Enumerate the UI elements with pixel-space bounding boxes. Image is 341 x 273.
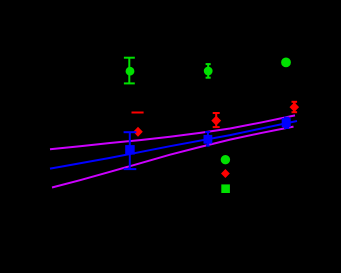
blue best-fit line [50,121,297,169]
green point G1 error bar [124,58,135,84]
blue point Bmid square [204,135,213,144]
red point R3 diamond [290,102,300,112]
red point R1 diamond [133,127,143,137]
blue point Bmid error bar [205,132,210,146]
red point R2 diamond [211,116,221,126]
blue point B1 error bar [124,132,137,169]
green point G3 circle [281,58,291,68]
blue point B2 square [282,118,291,127]
upper magenta confidence band line [50,115,295,149]
legend green square [221,184,230,193]
lower magenta confidence band line [52,127,294,188]
blue point B1 square [125,145,135,155]
red point R3 error bar [292,102,298,113]
green point G2 error bar [206,64,211,78]
red point R2 error bar [213,113,220,127]
red point R1 upper cap [132,112,144,114]
blue point B2 error bar [284,118,289,128]
legend red diamond [221,169,230,178]
legend green circle [221,155,230,164]
green point G1 circle [126,67,135,76]
green point G2 circle [204,67,213,76]
